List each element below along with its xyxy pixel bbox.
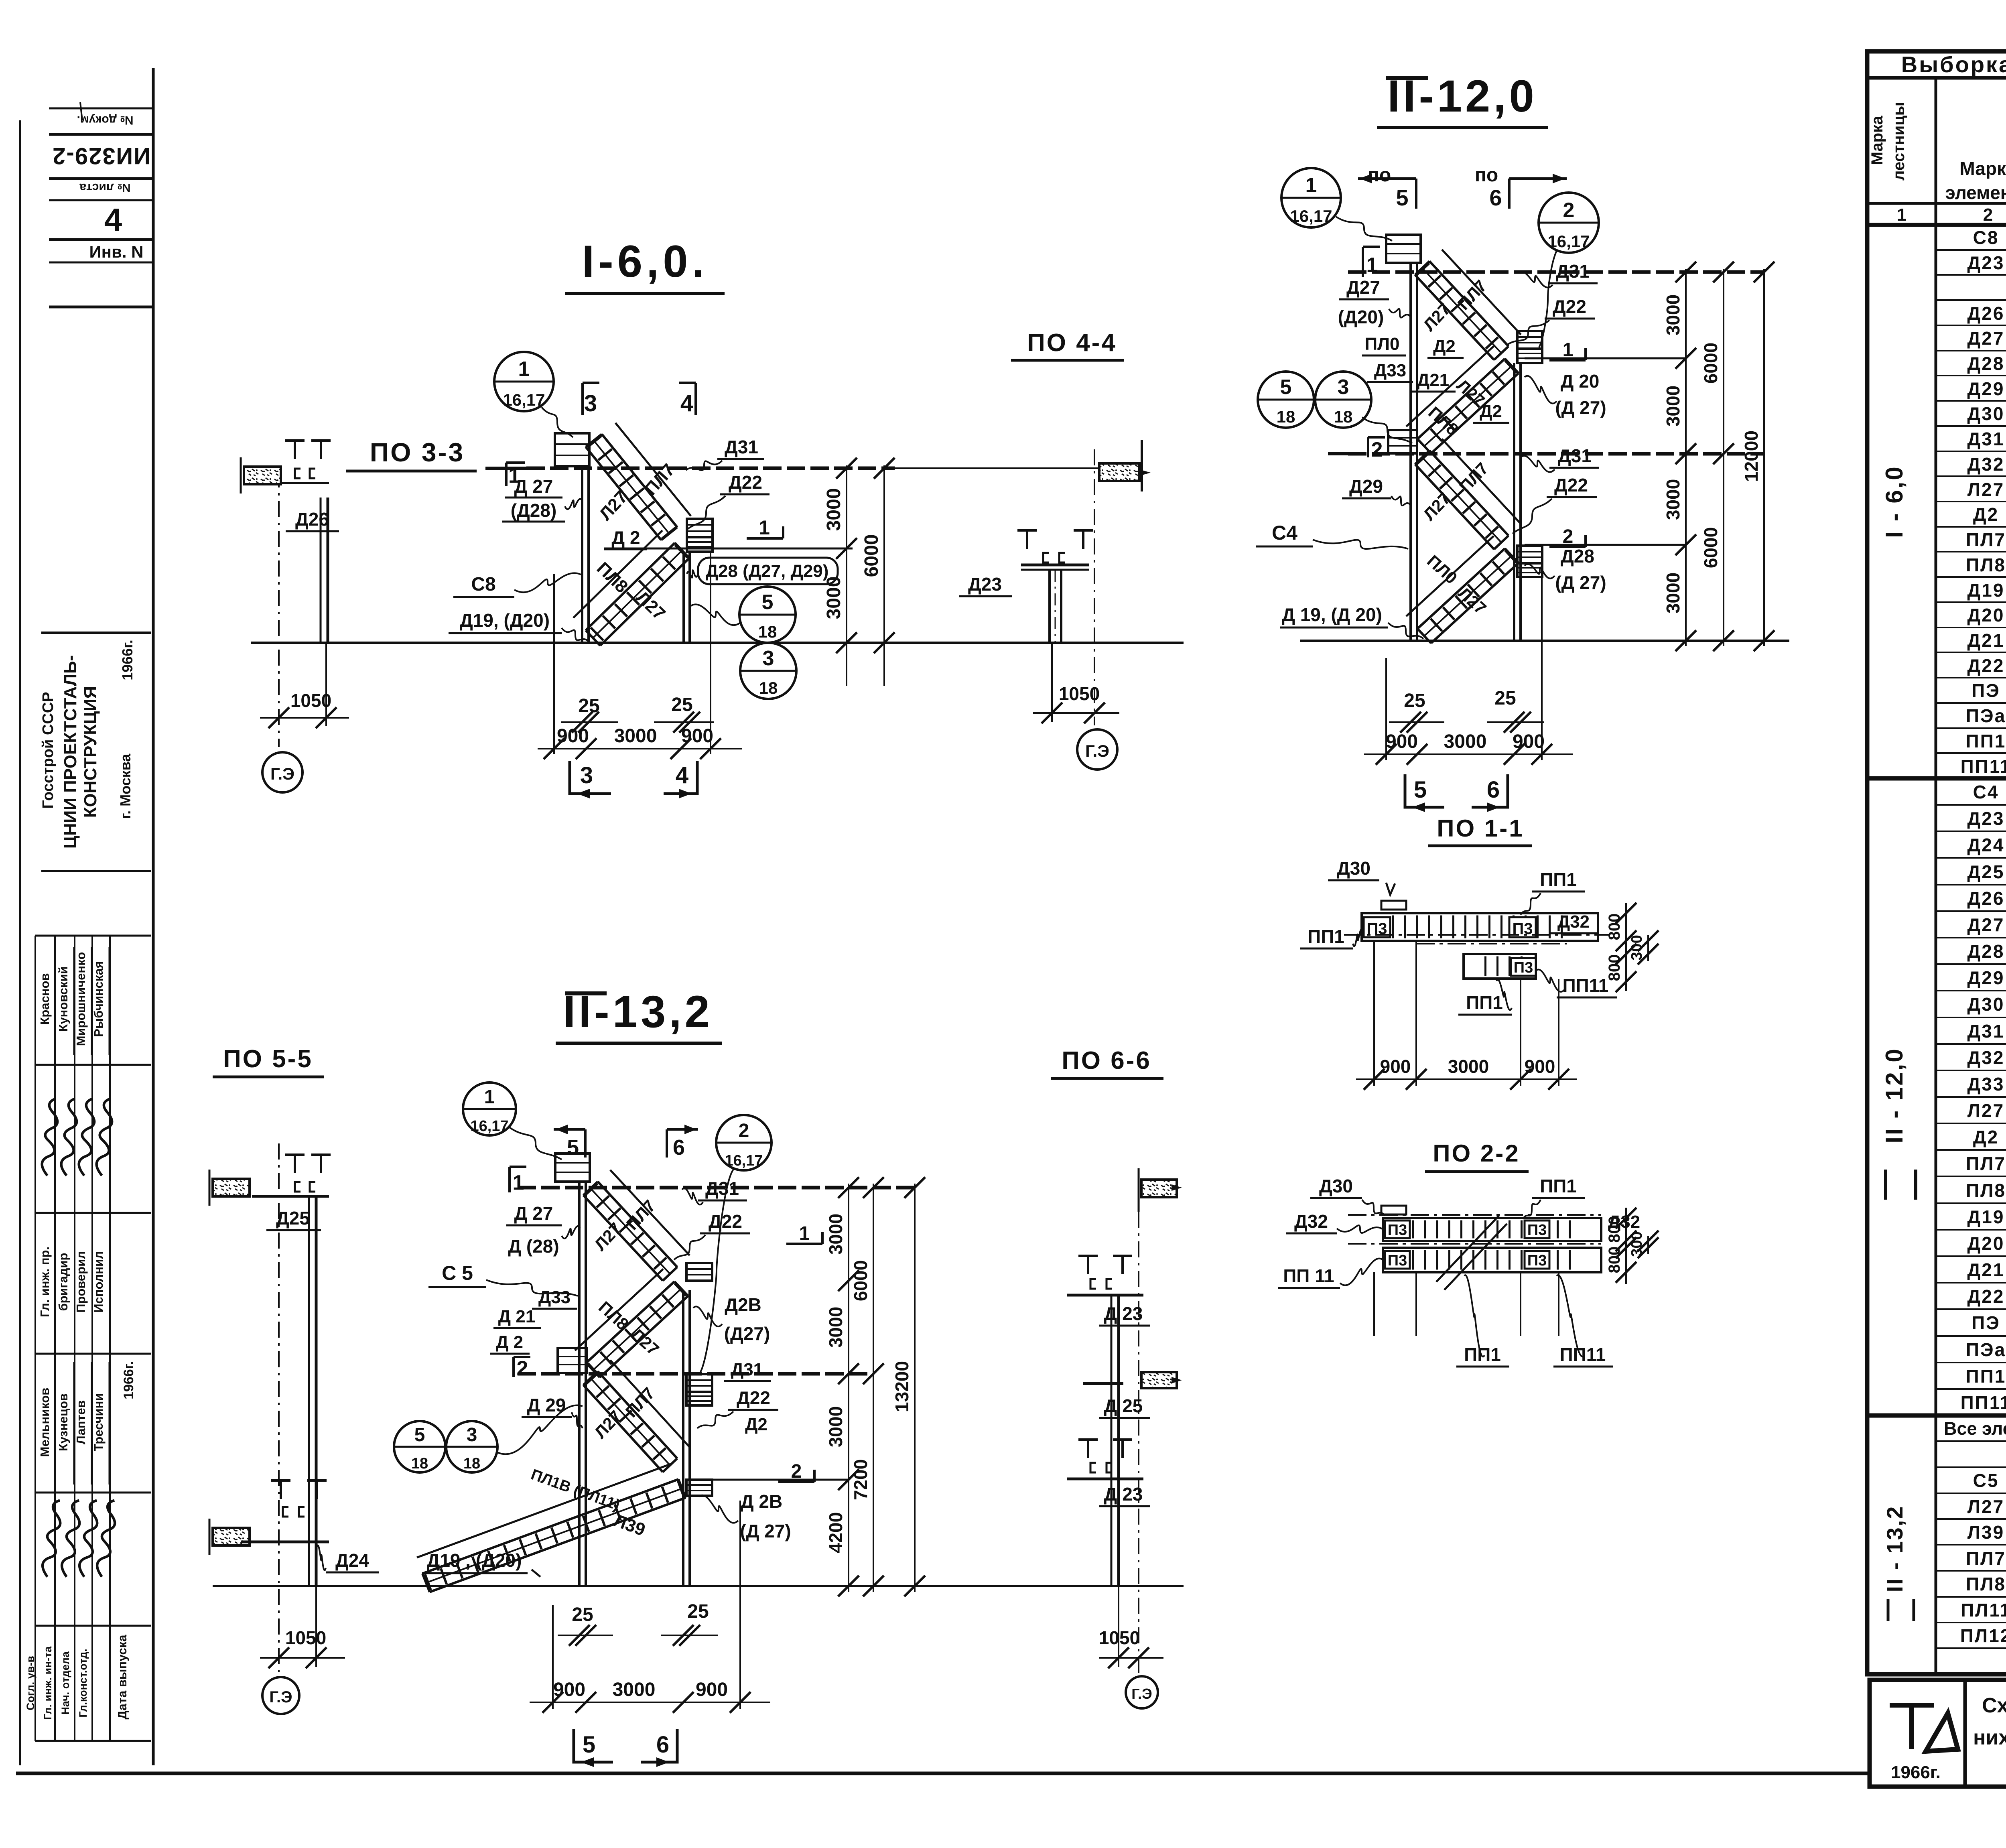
ПО1-1 band 2 bbox=[1464, 954, 1536, 979]
svg-text:Д19 , (Д20): Д19 , (Д20) bbox=[427, 1550, 522, 1571]
svg-text:6: 6 bbox=[1489, 185, 1502, 210]
svg-text:Г.Э: Г.Э bbox=[269, 1688, 292, 1706]
svg-text:Д19, (Д20): Д19, (Д20) bbox=[460, 610, 550, 631]
svg-text:ПЛ8: ПЛ8 bbox=[1966, 554, 2006, 575]
svg-text:ПЛ11: ПЛ11 bbox=[1961, 1600, 2006, 1621]
svg-text:18: 18 bbox=[1334, 407, 1353, 426]
svg-text:3: 3 bbox=[580, 762, 593, 788]
svg-text:Д 19, (Д 20): Д 19, (Д 20) bbox=[1282, 604, 1382, 625]
II-13,2 level lines bbox=[518, 1186, 915, 1190]
svg-text:(Д27): (Д27) bbox=[724, 1323, 770, 1344]
ПО 3-3 post bbox=[320, 498, 322, 643]
table header bottom line bbox=[1867, 202, 2006, 205]
svg-text:Л27: Л27 bbox=[1967, 1496, 2004, 1517]
svg-text:Гл. инж. ин-та: Гл. инж. ин-та bbox=[42, 1646, 54, 1720]
svg-text:Д30: Д30 bbox=[1967, 403, 2005, 424]
svg-text:С4: С4 bbox=[1973, 782, 1999, 802]
svg-text:Д27: Д27 bbox=[1346, 277, 1380, 298]
ПО1-1 right dims bbox=[1625, 903, 1627, 991]
svg-text:6000: 6000 bbox=[1700, 343, 1721, 384]
sheet bottom border bbox=[16, 1772, 1870, 1775]
svg-text:ПП1: ПП1 bbox=[1966, 1366, 2006, 1387]
svg-text:Краснов: Краснов bbox=[38, 973, 52, 1025]
svg-text:Д2: Д2 bbox=[1480, 402, 1502, 421]
TD logo bbox=[1890, 1705, 1958, 1751]
svg-text:Схемы лестниц с высотой: Схемы лестниц с высотой верх- bbox=[1982, 1694, 2006, 1717]
svg-text:Д20: Д20 bbox=[1967, 1233, 2005, 1254]
flight lower (ПЛ8/Л27) bbox=[600, 558, 689, 646]
svg-text:5: 5 bbox=[762, 591, 774, 614]
svg-text:Нач. отдела: Нач. отдела bbox=[59, 1651, 71, 1715]
svg-text:(Д 27): (Д 27) bbox=[740, 1521, 791, 1541]
svg-text:Л39: Л39 bbox=[1967, 1522, 2004, 1543]
svg-text:Д21: Д21 bbox=[1417, 370, 1449, 390]
svg-text:4: 4 bbox=[104, 202, 122, 238]
svg-text:Д23: Д23 bbox=[1967, 252, 2005, 273]
bottom dim 900/3000/900 I-6,0 bbox=[553, 574, 555, 754]
svg-text:г. Москва: г. Москва bbox=[117, 753, 134, 819]
svg-text:4: 4 bbox=[676, 762, 688, 788]
svg-text:Д21: Д21 bbox=[1967, 1259, 2005, 1280]
svg-text:2: 2 bbox=[517, 1357, 528, 1380]
svg-text:5: 5 bbox=[1396, 185, 1408, 210]
svg-text:С8: С8 bbox=[471, 574, 495, 595]
svg-text:ПП 11: ПП 11 bbox=[1283, 1265, 1334, 1286]
svg-text:С8: С8 bbox=[1973, 227, 1999, 248]
svg-text:16,17: 16,17 bbox=[1547, 232, 1590, 251]
svg-text:Д2: Д2 bbox=[745, 1415, 767, 1434]
svg-text:Согл. ув-в: Согл. ув-в bbox=[24, 1656, 37, 1710]
svg-text:ПО 1-1: ПО 1-1 bbox=[1437, 815, 1524, 842]
svg-text:Д22: Д22 bbox=[737, 1387, 770, 1408]
svg-text:ПО 5-5: ПО 5-5 bbox=[223, 1045, 313, 1073]
svg-text:ПП1: ПП1 bbox=[1464, 1344, 1501, 1365]
svg-text:16,17: 16,17 bbox=[725, 1152, 763, 1169]
svg-text:6000: 6000 bbox=[1700, 527, 1721, 568]
svg-text:ПЭа: ПЭа bbox=[1966, 705, 2006, 726]
circle mark 1/16,17 bbox=[494, 352, 554, 411]
svg-text:Г.Э: Г.Э bbox=[270, 764, 294, 783]
svg-text:Г.Э: Г.Э bbox=[1085, 741, 1109, 760]
svg-text:ПЛ7: ПЛ7 bbox=[1966, 1548, 2006, 1569]
left post cap bbox=[555, 433, 589, 466]
svg-text:900: 900 bbox=[553, 1679, 585, 1700]
svg-text:ПЛ0: ПЛ0 bbox=[1365, 334, 1400, 354]
II-12,0 ground line bbox=[1300, 640, 1789, 642]
svg-text:Д28: Д28 bbox=[1561, 546, 1594, 567]
top-left inventory stamp block bbox=[49, 108, 153, 110]
svg-text:(Д28): (Д28) bbox=[511, 500, 557, 521]
II-13,2 ground line bbox=[213, 1585, 1184, 1587]
table outer border bbox=[1867, 51, 2006, 1674]
svg-text:Д33: Д33 bbox=[1967, 1074, 2005, 1095]
II-12,0 level lines bbox=[1348, 270, 1764, 274]
circle 1/16,17 II-12 bbox=[1281, 168, 1341, 227]
flight upper (ПЛ7/Л27) bbox=[602, 434, 677, 527]
svg-text:I - 6,0: I - 6,0 bbox=[1881, 465, 1908, 538]
svg-text:2: 2 bbox=[1983, 205, 1993, 225]
svg-text:Д 27: Д 27 bbox=[514, 1203, 553, 1224]
svg-text:3: 3 bbox=[1338, 376, 1349, 399]
svg-text:800: 800 bbox=[1606, 954, 1623, 981]
svg-text:1: 1 bbox=[1897, 205, 1907, 225]
bottom title block bbox=[1870, 1680, 2006, 1787]
svg-text:1: 1 bbox=[1563, 339, 1574, 361]
svg-text:1: 1 bbox=[759, 516, 770, 539]
svg-text:ЦНИИ ПРОЕКТСТАЛЬ-: ЦНИИ ПРОЕКТСТАЛЬ- bbox=[61, 655, 80, 849]
svg-text:1: 1 bbox=[799, 1223, 810, 1244]
ПО2-2 axis dashes bbox=[1348, 1214, 1601, 1216]
ПО4-4 top plate bbox=[1021, 564, 1089, 567]
section cut 3 bottom bbox=[570, 761, 611, 794]
svg-text:Д 20: Д 20 bbox=[1561, 371, 1600, 392]
svg-text:25: 25 bbox=[1494, 688, 1516, 709]
label Д28 (Д27, Д29) boxed bbox=[698, 558, 838, 584]
dim chain 6000 bbox=[883, 465, 885, 686]
circle 1/16,17 II-13 bbox=[463, 1082, 516, 1135]
svg-text:Д32: Д32 bbox=[1967, 454, 2005, 475]
svg-text:Д31: Д31 bbox=[705, 1178, 739, 1199]
svg-text:Госстрой СССР: Госстрой СССР bbox=[40, 692, 57, 808]
dim chains II-13,2 bbox=[848, 1184, 849, 1592]
svg-text:900: 900 bbox=[1525, 1056, 1555, 1077]
svg-text:элемента: элемента bbox=[1945, 182, 2006, 203]
section cut 6 bottom II-12,0 bbox=[1472, 774, 1508, 807]
svg-text:3000: 3000 bbox=[1663, 294, 1683, 335]
svg-text:Дата выпуска: Дата выпуска bbox=[115, 1635, 129, 1720]
svg-text:ПЛ7: ПЛ7 bbox=[1966, 1153, 2006, 1174]
svg-text:5: 5 bbox=[1414, 777, 1427, 803]
svg-text:ПЛ12: ПЛ12 bbox=[1960, 1625, 2006, 1646]
svg-text:Д2В: Д2В bbox=[725, 1294, 761, 1315]
svg-text:П3: П3 bbox=[1527, 1252, 1547, 1269]
svg-text:Марка: Марка bbox=[1959, 158, 2006, 179]
svg-text:Д19: Д19 bbox=[1967, 1206, 2005, 1227]
svg-text:18: 18 bbox=[411, 1455, 428, 1472]
svg-text:Инв. N: Инв. N bbox=[89, 242, 143, 261]
svg-text:Д 25: Д 25 bbox=[1104, 1395, 1143, 1416]
level cut 1 right II-12,0 bbox=[1549, 359, 1586, 361]
svg-text:Д31: Д31 bbox=[725, 437, 758, 457]
II-12,0 flights bbox=[1429, 261, 1509, 346]
svg-text:Д30: Д30 bbox=[1319, 1176, 1353, 1196]
svg-text:Д26: Д26 bbox=[295, 509, 329, 530]
ПО4-4 post bbox=[1048, 570, 1051, 643]
svg-text:ПО 2-2: ПО 2-2 bbox=[1433, 1140, 1520, 1167]
svg-text:5: 5 bbox=[583, 1732, 595, 1758]
svg-text:1: 1 bbox=[1306, 174, 1317, 197]
svg-text:ПП1: ПП1 bbox=[1466, 992, 1503, 1013]
6 mark top II-13 bbox=[667, 1129, 698, 1158]
table title row line bbox=[1867, 76, 2006, 80]
ПО3-3 axis dash line bbox=[278, 471, 280, 747]
svg-text:3000: 3000 bbox=[1448, 1056, 1489, 1077]
svg-text:ПЭ: ПЭ bbox=[1971, 680, 2000, 701]
svg-text:16,17: 16,17 bbox=[470, 1118, 508, 1135]
section cut 4 (top) bbox=[694, 383, 697, 415]
svg-text:Д23: Д23 bbox=[968, 574, 1002, 595]
svg-text:ПО 6-6: ПО 6-6 bbox=[1062, 1047, 1151, 1074]
svg-text:Д22: Д22 bbox=[1967, 655, 2005, 676]
svg-text:900: 900 bbox=[681, 725, 713, 747]
svg-text:Д27: Д27 bbox=[1967, 914, 2005, 935]
svg-text:4200: 4200 bbox=[825, 1512, 846, 1553]
svg-text:Л27: Л27 bbox=[1967, 1100, 2004, 1121]
level mark 1 left bbox=[505, 463, 508, 486]
svg-text:№ докум.: № докум. bbox=[77, 114, 134, 127]
ПО3-3 slab left bbox=[244, 467, 281, 484]
svg-text:1966г.: 1966г. bbox=[121, 1361, 136, 1399]
ПО6-6 mid plate + slab bbox=[1083, 1382, 1123, 1385]
svg-text:3000: 3000 bbox=[1663, 386, 1683, 426]
svg-text:ПЭа: ПЭа bbox=[1966, 1339, 2006, 1360]
svg-text:900: 900 bbox=[557, 725, 589, 747]
section cut 5 bottom II-12,0 bbox=[1405, 774, 1444, 807]
svg-text:бригадир: бригадир bbox=[56, 1253, 70, 1311]
svg-text:ПП11: ПП11 bbox=[1563, 975, 1609, 996]
svg-text:16,17: 16,17 bbox=[1290, 207, 1332, 225]
svg-text:(Д20): (Д20) bbox=[1338, 307, 1384, 327]
section cut 5 bottom II-13,2 bbox=[574, 1729, 613, 1762]
svg-text:25: 25 bbox=[1404, 690, 1425, 711]
svg-text:Д2: Д2 bbox=[1973, 1127, 1999, 1147]
svg-text:П3: П3 bbox=[1514, 959, 1533, 976]
ПО1-1 axis dash through band bbox=[1344, 934, 1609, 936]
svg-text:3: 3 bbox=[467, 1424, 477, 1446]
II-13,2 long bottom flight Л39 bbox=[430, 1498, 686, 1592]
svg-text:Д 23: Д 23 bbox=[1104, 1484, 1143, 1505]
svg-text:Марка: Марка bbox=[1868, 116, 1886, 165]
ПО4-4 axis line bbox=[1094, 449, 1095, 725]
svg-text:Д (28): Д (28) bbox=[508, 1236, 559, 1257]
svg-text:Д 21: Д 21 bbox=[498, 1307, 536, 1326]
level cut 2 left II-13,2 bbox=[512, 1357, 515, 1377]
svg-text:6000: 6000 bbox=[861, 534, 882, 577]
svg-text:Д19: Д19 bbox=[1967, 580, 2005, 601]
left strip: signatures table bbox=[35, 935, 151, 937]
svg-text:Д32: Д32 bbox=[1967, 1047, 2005, 1068]
svg-text:Д2: Д2 bbox=[1433, 337, 1456, 356]
svg-text:Л27: Л27 bbox=[1967, 479, 2004, 500]
svg-text:6: 6 bbox=[656, 1732, 669, 1758]
svg-text:Д 2: Д 2 bbox=[496, 1332, 523, 1352]
stair I-6,0: left post C8 bbox=[581, 465, 583, 643]
svg-text:ПП11: ПП11 bbox=[1961, 756, 2006, 777]
level cut 1 right II-13,2 bbox=[786, 1243, 822, 1245]
ПО5-5 top T + slab bbox=[285, 1155, 305, 1173]
svg-text:Д22: Д22 bbox=[1554, 475, 1588, 496]
svg-text:1: 1 bbox=[513, 1171, 524, 1194]
svg-text:Д21: Д21 bbox=[1967, 630, 2005, 651]
ПО6-6 top T pair bbox=[1078, 1256, 1098, 1274]
svg-text:Проверил: Проверил bbox=[74, 1251, 88, 1313]
svg-text:ПП11: ПП11 bbox=[1560, 1344, 1606, 1365]
svg-text:П3: П3 bbox=[1527, 1222, 1547, 1239]
ПО6-6 wall slab top right bbox=[1141, 1180, 1177, 1197]
svg-text:25: 25 bbox=[671, 694, 692, 715]
svg-text:Д32: Д32 bbox=[1294, 1211, 1328, 1232]
svg-text:900: 900 bbox=[696, 1679, 728, 1700]
ПО2-2 band 1 bbox=[1383, 1218, 1601, 1241]
svg-text:Кузнецов: Кузнецов bbox=[56, 1393, 70, 1451]
svg-text:Д25: Д25 bbox=[276, 1208, 310, 1229]
II-13,2 flights bbox=[598, 1182, 677, 1267]
svg-text:1: 1 bbox=[1366, 254, 1378, 277]
svg-text:КОНСТРУКЦИЯ: КОНСТРУКЦИЯ bbox=[81, 686, 100, 818]
svg-text:900: 900 bbox=[1513, 731, 1545, 752]
svg-text:7200: 7200 bbox=[850, 1459, 871, 1500]
svg-text:№ листа: № листа bbox=[79, 181, 131, 194]
svg-text:Д24: Д24 bbox=[1967, 835, 2005, 855]
svg-text:1: 1 bbox=[484, 1086, 495, 1108]
svg-text:5: 5 bbox=[1280, 376, 1292, 399]
ПО5-5 mid T + slab bbox=[271, 1480, 290, 1499]
circles 5/18 3/18 II-12,0 bbox=[1258, 372, 1314, 428]
svg-text:ПЛ8: ПЛ8 bbox=[1966, 1180, 2006, 1201]
table numbers row bottom line bbox=[1867, 223, 2006, 227]
svg-text:II - 13,2: II - 13,2 bbox=[1882, 1505, 1907, 1592]
svg-text:Д22: Д22 bbox=[1967, 1286, 2005, 1307]
left strip: institute block bbox=[41, 632, 151, 634]
svg-text:1966г.: 1966г. bbox=[1891, 1763, 1941, 1782]
svg-text:25: 25 bbox=[687, 1601, 709, 1622]
svg-text:3000: 3000 bbox=[613, 1679, 656, 1700]
svg-text:6: 6 bbox=[1487, 777, 1500, 803]
svg-text:Д22: Д22 bbox=[709, 1211, 742, 1232]
svg-text:18: 18 bbox=[1277, 407, 1295, 426]
svg-text:1: 1 bbox=[518, 357, 530, 381]
svg-text:Д28: Д28 bbox=[1967, 353, 2005, 374]
circle 2/16,17 II-12 bbox=[1539, 193, 1599, 253]
svg-text:ПП1: ПП1 bbox=[1308, 926, 1344, 947]
svg-text:900: 900 bbox=[1386, 731, 1418, 752]
level cut 1 left II-12,0 bbox=[1362, 247, 1364, 277]
svg-text:2: 2 bbox=[1371, 438, 1383, 461]
svg-text:Лаптев: Лаптев bbox=[74, 1400, 88, 1444]
sheet main left frame line bbox=[152, 68, 155, 1765]
svg-text:ПЛ7: ПЛ7 bbox=[1966, 529, 2006, 550]
ПО6-6 lower T pair bbox=[1078, 1440, 1098, 1458]
circles 5/18 3/18 II-13,2 bbox=[394, 1421, 445, 1472]
svg-text:1966г.: 1966г. bbox=[119, 640, 136, 680]
svg-text:Д30: Д30 bbox=[1967, 994, 2005, 1015]
svg-text:Д31: Д31 bbox=[1556, 261, 1590, 282]
svg-text:С4: С4 bbox=[1272, 522, 1297, 544]
5 mark top II-13 bbox=[554, 1129, 585, 1158]
svg-text:3000: 3000 bbox=[825, 1307, 846, 1348]
svg-text:ПО 4-4: ПО 4-4 bbox=[1027, 329, 1117, 357]
svg-text:С 5: С 5 bbox=[442, 1262, 473, 1284]
svg-text:ПП1: ПП1 bbox=[1966, 731, 2006, 751]
svg-text:Мельников: Мельников bbox=[38, 1388, 52, 1457]
svg-text:Д33: Д33 bbox=[1374, 361, 1406, 380]
ПО3-3 circle Г.Э bbox=[262, 752, 303, 792]
svg-text:Выборка: Выборка bbox=[1901, 52, 2006, 77]
svg-text:3000: 3000 bbox=[825, 1214, 846, 1255]
svg-text:3000: 3000 bbox=[614, 725, 657, 747]
svg-text:6: 6 bbox=[673, 1135, 685, 1160]
svg-text:Д 2В: Д 2В bbox=[741, 1491, 782, 1512]
svg-text:Д25: Д25 bbox=[1967, 861, 2005, 882]
svg-text:Д31: Д31 bbox=[1967, 1021, 2005, 1042]
svg-text:Д 23: Д 23 bbox=[1104, 1303, 1143, 1324]
level cut 2 right II-13,2 bbox=[778, 1480, 814, 1483]
ПО2-2 bottom labels bbox=[1373, 1272, 1375, 1336]
svg-text:Д 2: Д 2 bbox=[611, 527, 640, 548]
svg-text:1050: 1050 bbox=[1059, 683, 1100, 704]
signatures bbox=[35, 1098, 65, 1176]
ПО2-2 band 2 bbox=[1383, 1248, 1601, 1272]
svg-text:Д22: Д22 bbox=[1553, 296, 1586, 317]
svg-text:по: по bbox=[1475, 164, 1498, 186]
ПО3-3 top T symbols bbox=[285, 441, 305, 459]
svg-text:Рыбчинская: Рыбчинская bbox=[91, 961, 106, 1037]
svg-text:Гл.конст.отд.: Гл.конст.отд. bbox=[77, 1649, 89, 1717]
svg-text:6000: 6000 bbox=[850, 1260, 871, 1301]
svg-text:800: 800 bbox=[1606, 1247, 1623, 1273]
table column lines bbox=[1935, 78, 1937, 1674]
svg-text:I-6,0.: I-6,0. bbox=[582, 236, 708, 286]
svg-text:Д 27: Д 27 bbox=[514, 476, 553, 497]
ПО2-2 right dims bbox=[1625, 1208, 1627, 1284]
svg-text:Д27: Д27 bbox=[1967, 328, 2005, 349]
svg-text:3000: 3000 bbox=[825, 1406, 846, 1447]
svg-text:Д29: Д29 bbox=[1967, 378, 2005, 399]
II-12,0 left post C4 bbox=[1409, 263, 1412, 641]
level cut 1 left II-13,2 bbox=[508, 1167, 511, 1192]
ПО1-1 bottom dims bbox=[1373, 941, 1375, 1086]
svg-text:Д33: Д33 bbox=[538, 1288, 571, 1307]
svg-text:Д31: Д31 bbox=[1558, 445, 1592, 466]
svg-text:2: 2 bbox=[1563, 199, 1575, 222]
svg-text:3000: 3000 bbox=[823, 488, 845, 531]
svg-text:18: 18 bbox=[758, 622, 777, 641]
II-13,2 left post C5 bbox=[578, 1182, 581, 1586]
svg-text:Д31: Д31 bbox=[731, 1360, 763, 1379]
svg-text:3: 3 bbox=[584, 390, 597, 416]
svg-text:Д26: Д26 bbox=[1967, 303, 2005, 324]
svg-text:Исполнил: Исполнил bbox=[91, 1251, 106, 1313]
svg-text:18: 18 bbox=[463, 1455, 480, 1472]
svg-text:Тресчини: Тресчини bbox=[91, 1393, 106, 1452]
svg-text:13200: 13200 bbox=[891, 1361, 912, 1412]
svg-text:Д32: Д32 bbox=[1557, 912, 1590, 932]
svg-text:16,17: 16,17 bbox=[503, 390, 545, 409]
svg-text:Д30: Д30 bbox=[1337, 858, 1370, 879]
svg-text:2: 2 bbox=[791, 1461, 802, 1482]
svg-text:Куновский: Куновский bbox=[56, 967, 70, 1032]
landing caps right I-6,0 bbox=[687, 519, 713, 537]
svg-text:(Д 27): (Д 27) bbox=[1555, 397, 1606, 418]
section cut 6 bottom II-13,2 bbox=[641, 1729, 677, 1762]
svg-text:лестницы: лестницы bbox=[1890, 102, 1908, 181]
svg-text:Д2: Д2 bbox=[1973, 504, 1999, 525]
svg-text:Д28 (Д27, Д29): Д28 (Д27, Д29) bbox=[706, 561, 829, 581]
svg-text:них маршей h = 3,0м: них маршей h = 3,0м bbox=[1973, 1726, 2006, 1749]
svg-text:(Д 27): (Д 27) bbox=[1555, 572, 1606, 593]
section cut 4 bottom bbox=[664, 761, 697, 794]
svg-text:ПЭ: ПЭ bbox=[1971, 1312, 2000, 1333]
svg-text:300: 300 bbox=[1628, 1231, 1645, 1257]
svg-text:Д29: Д29 bbox=[1349, 476, 1383, 497]
ПО4-4 circle Г.Э bbox=[1077, 729, 1117, 770]
svg-text:900: 900 bbox=[1380, 1056, 1411, 1077]
level cut 2 left II-12,0 bbox=[1367, 437, 1369, 457]
svg-text:II - 12,0: II - 12,0 bbox=[1881, 1047, 1908, 1143]
dim chain I-6,0 vertical 3000/3000 bbox=[846, 465, 847, 686]
svg-text:4: 4 bbox=[680, 390, 693, 416]
svg-text:Гл. инж. пр.: Гл. инж. пр. bbox=[38, 1247, 52, 1317]
